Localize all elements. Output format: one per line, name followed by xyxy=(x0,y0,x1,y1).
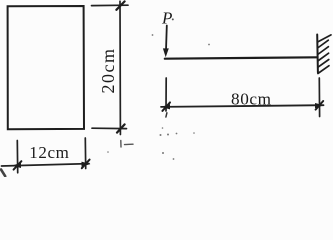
comma mark below left 80cm arrow xyxy=(166,113,167,117)
tick bottom terminator 20cm xyxy=(117,124,125,132)
svg-text:20cm: 20cm xyxy=(98,48,118,94)
tick right terminator 12cm xyxy=(82,160,90,169)
dot after P xyxy=(172,18,174,20)
extension line right (80cm) xyxy=(318,78,320,117)
scan noise specks xyxy=(107,34,210,160)
label 12cm xyxy=(29,143,69,162)
label 20cm (rotated) xyxy=(98,48,118,94)
beam line xyxy=(165,57,317,58)
tick right terminator 80cm xyxy=(316,101,324,110)
rectangle cross-section outline xyxy=(8,6,84,129)
dimension line 12cm xyxy=(2,164,90,166)
arrowhead left 12cm xyxy=(12,163,21,168)
wall hatching xyxy=(318,35,331,74)
force arrow P head xyxy=(163,48,169,57)
load label P xyxy=(161,9,172,28)
svg-text:12cm: 12cm xyxy=(29,143,69,162)
arrowhead right 80cm xyxy=(315,103,324,108)
dimension line 80cm xyxy=(161,105,324,107)
extension line top (20cm) xyxy=(92,4,129,6)
tick left terminator 12cm xyxy=(14,161,22,169)
label 80cm xyxy=(231,89,272,108)
stray mark bottom-left corner xyxy=(1,170,5,177)
dimension line vertical 20cm xyxy=(119,1,121,134)
extension line right (12cm) xyxy=(84,138,86,169)
fixed support wall line xyxy=(316,35,319,73)
arrowhead right 12cm xyxy=(82,162,91,167)
stray tick and dash below 20cm dimension xyxy=(121,141,133,148)
svg-text:80cm: 80cm xyxy=(231,89,272,108)
extension line left (12cm) xyxy=(16,141,18,173)
tick top terminator 20cm xyxy=(116,1,124,9)
extension line bottom (20cm) xyxy=(92,127,127,129)
extension line left (80cm) xyxy=(165,78,167,111)
arrowhead left 80cm xyxy=(161,104,170,109)
force arrow P shaft xyxy=(165,26,168,51)
tick left terminator 80cm xyxy=(162,102,170,111)
